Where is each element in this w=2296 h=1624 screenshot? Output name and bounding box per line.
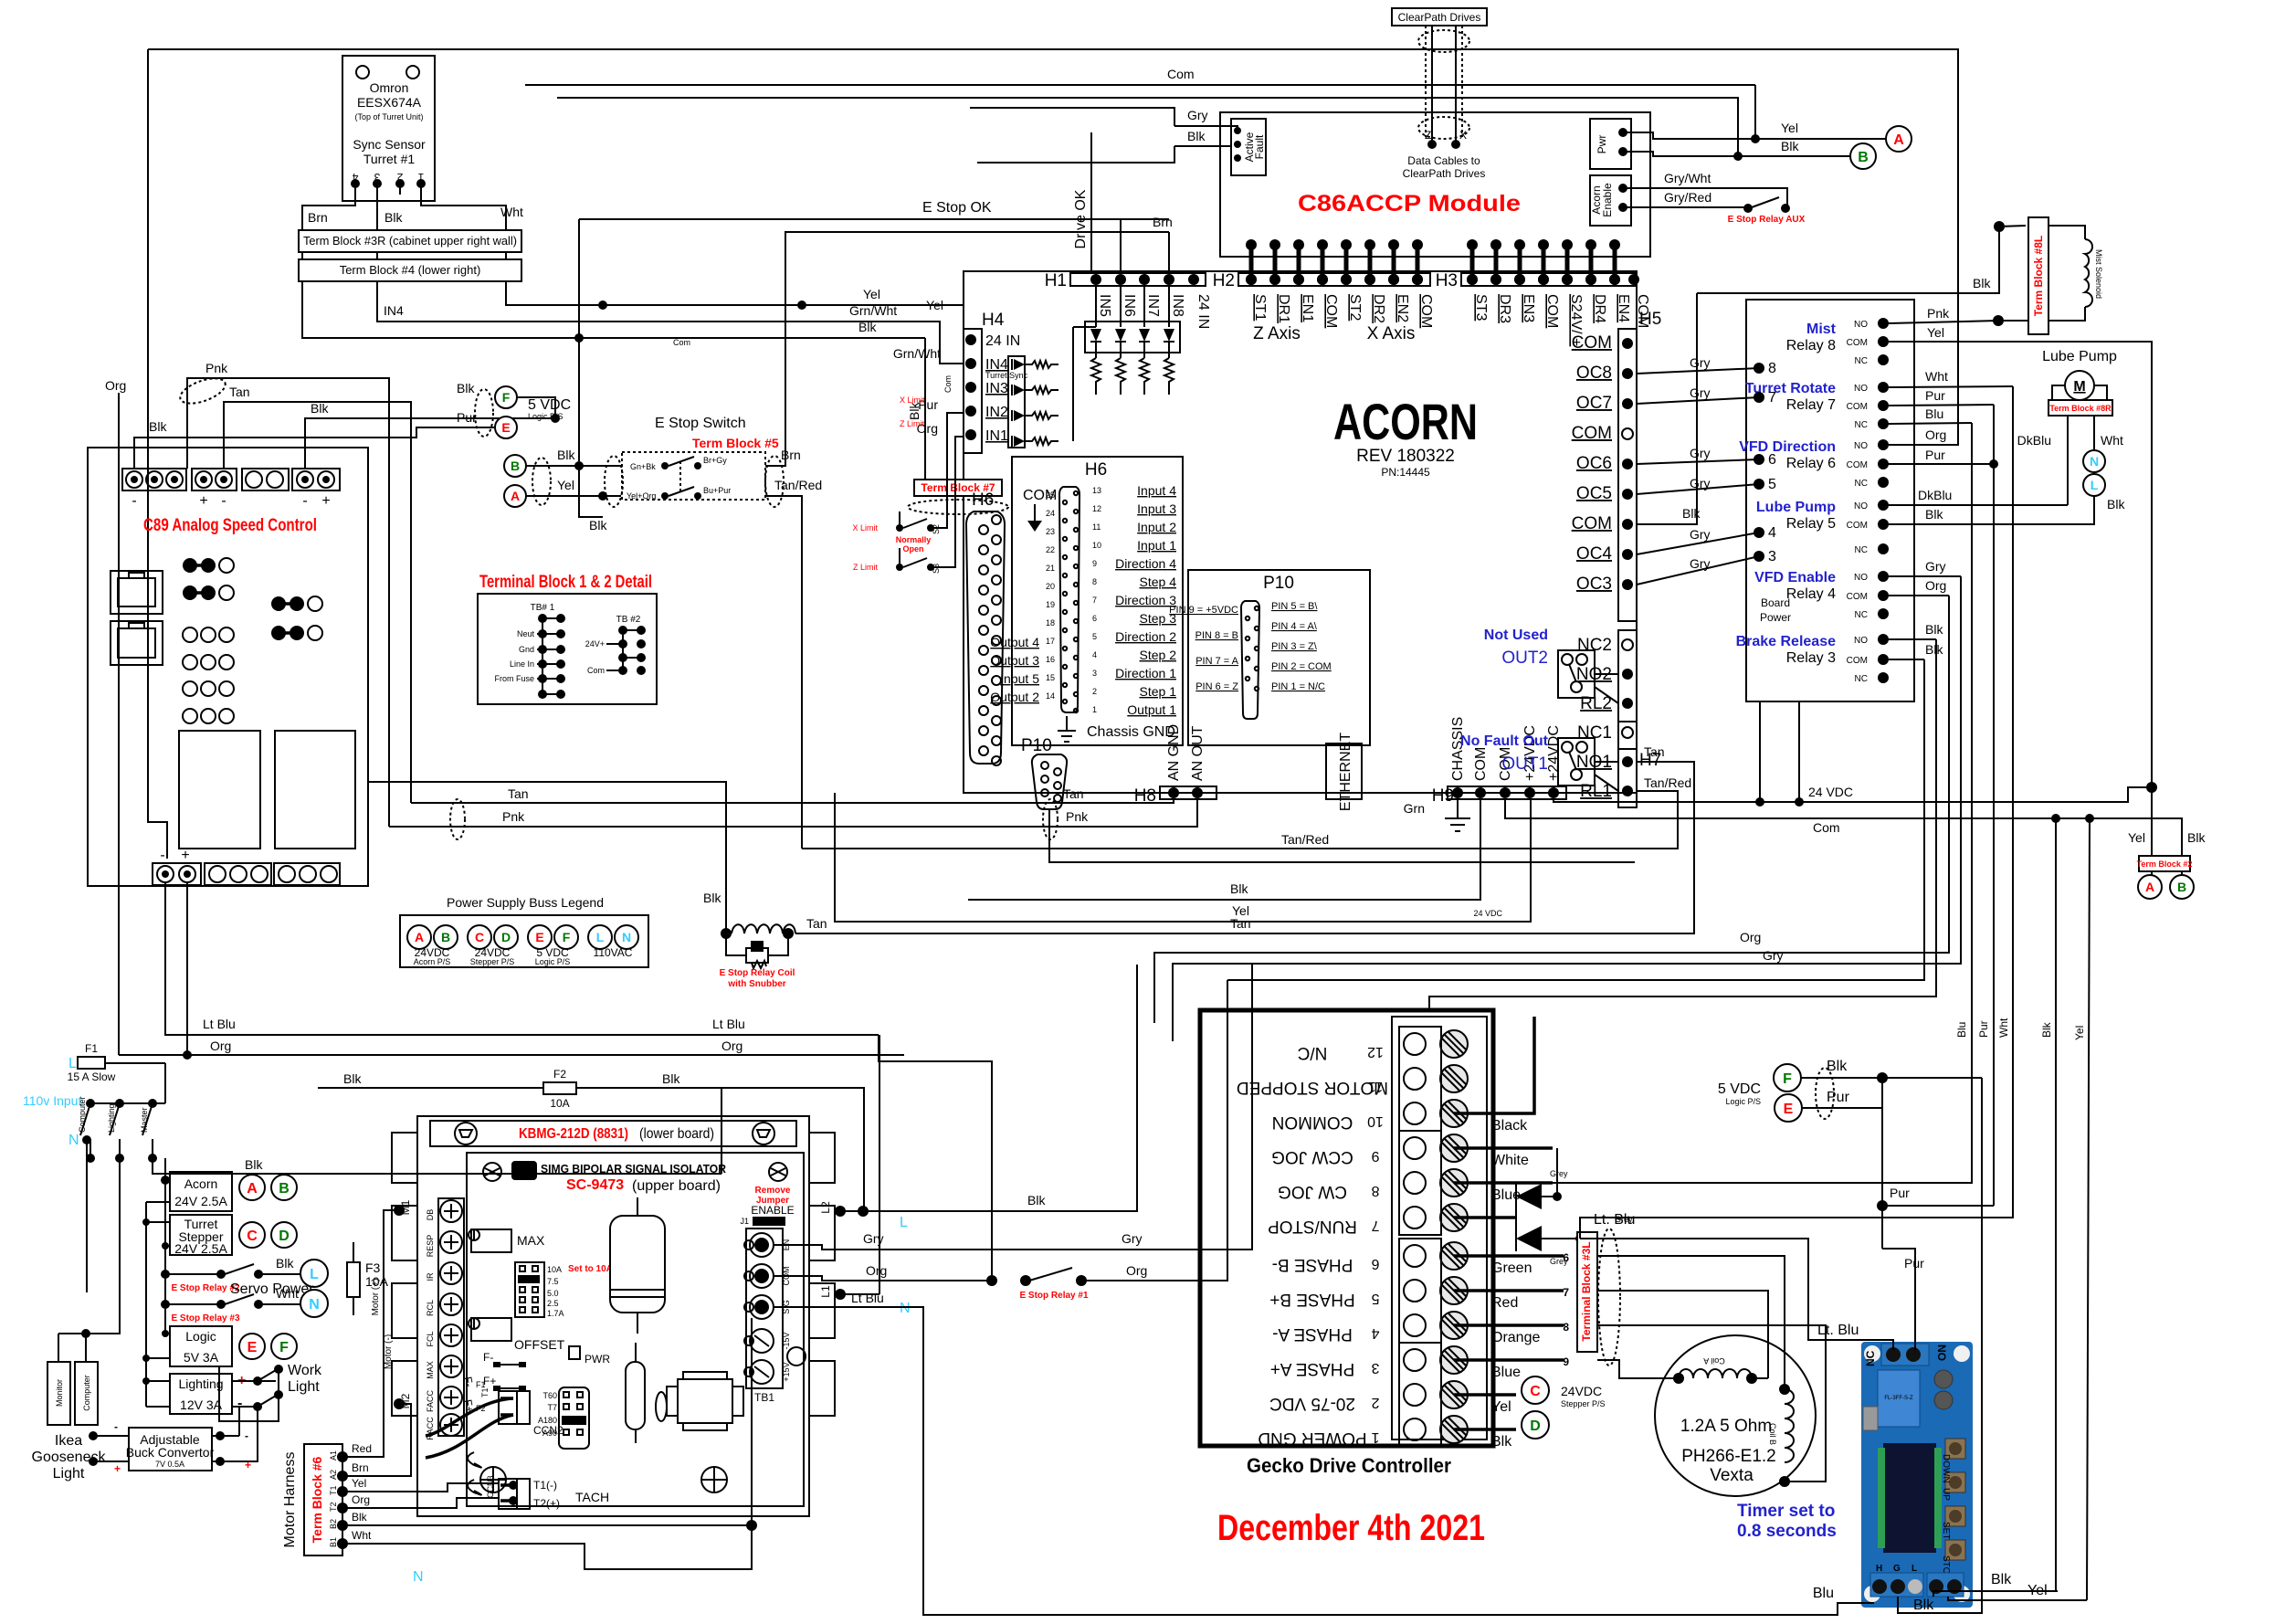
term5 contacts [627, 456, 731, 501]
circle A pwr [1886, 126, 1912, 152]
svg-text:Relay 5: Relay 5 [1786, 516, 1836, 532]
svg-text:Output 3: Output 3 [990, 653, 1039, 668]
svg-text:8: 8 [1092, 577, 1097, 586]
svg-text:Mist: Mist [1806, 322, 1837, 337]
svg-text:Blu: Blu [1813, 1586, 1834, 1601]
KB logo [511, 1161, 537, 1180]
svg-text:H2: H2 [1213, 271, 1235, 290]
svg-text:Open: Open [902, 544, 923, 554]
svg-text:Wht: Wht [276, 1286, 299, 1301]
wire Pnk top [187, 378, 389, 827]
svg-text:E: E [501, 420, 510, 435]
buck converter box [129, 1428, 212, 1471]
coil B vertical [1768, 1384, 1794, 1487]
wire relay4 NO Gry [1889, 575, 1961, 577]
motor+ wire [384, 1209, 399, 1211]
E stop relay 2 servo power [161, 1256, 328, 1297]
svg-text:H3: H3 [1436, 271, 1458, 290]
module bottom pins to H2 [1251, 245, 1615, 279]
svg-text:1.7A: 1.7A [547, 1309, 564, 1318]
svg-text:Yel: Yel [863, 287, 880, 301]
wires OC->relay inputs [1637, 368, 1759, 374]
svg-text:7: 7 [1768, 390, 1776, 406]
svg-text:+: + [114, 1462, 121, 1475]
svg-text:Pwr: Pwr [1596, 135, 1608, 154]
C86ACCP module box [1220, 112, 1650, 257]
Lighting PSU box [170, 1374, 232, 1414]
svg-text:Pnk: Pnk [1066, 809, 1089, 824]
svg-text:Term Block #4 (lower right): Term Block #4 (lower right) [340, 263, 481, 277]
svg-text:L1: L1 [819, 1285, 832, 1298]
svg-text:B1: B1 [329, 1537, 338, 1547]
svg-text:N: N [900, 1301, 911, 1316]
svg-text:Pnk: Pnk [205, 361, 228, 375]
svg-text:Blk: Blk [703, 891, 721, 905]
Term Block #8R [2048, 400, 2112, 416]
caps [1934, 1370, 1953, 1388]
svg-text:PWR: PWR [585, 1353, 610, 1366]
Acorn PSU box [170, 1172, 232, 1211]
svg-text:Blk: Blk [858, 320, 877, 334]
svg-text:1: 1 [1092, 705, 1097, 714]
svg-text:DR3: DR3 [1497, 294, 1512, 323]
svg-text:Output 1: Output 1 [1127, 702, 1176, 717]
svg-text:P10: P10 [1021, 736, 1052, 755]
svg-text:7: 7 [1371, 1218, 1379, 1233]
svg-text:N/C: N/C [1298, 1043, 1328, 1062]
Turret stepper PSU box [170, 1215, 232, 1255]
svg-text:Gry: Gry [1763, 948, 1784, 963]
svg-text:2: 2 [1092, 687, 1097, 696]
wire Gry/Red + E Stop Relay AUX switch [1623, 206, 1744, 208]
svg-text:F: F [563, 930, 571, 944]
relay 5 Lube Pump [1756, 500, 1889, 555]
svg-text:Omron: Omron [370, 80, 409, 95]
svg-text:Blk: Blk [352, 1511, 368, 1524]
Term Block #2 box [2139, 856, 2190, 871]
svg-text:Board: Board [1761, 596, 1790, 609]
svg-text:Motor (-): Motor (-) [384, 1334, 394, 1369]
svg-text:Blk: Blk [2040, 1021, 2053, 1038]
X/Z limit switches [852, 413, 964, 574]
svg-text:COM: COM [1847, 460, 1868, 470]
C89 open pads rows [183, 627, 234, 723]
svg-text:COMMON: COMMON [1272, 1113, 1353, 1132]
grey dashed cable [1598, 1229, 1620, 1366]
E stop relay coil with snubber [720, 924, 795, 989]
svg-text:4: 4 [1092, 650, 1097, 659]
svg-text:Gecko Drive Controller: Gecko Drive Controller [1247, 1454, 1451, 1477]
diodes at run/stop [1516, 1148, 1635, 1266]
svg-text:UP: UP [1941, 1488, 1951, 1501]
lube pump motor [2065, 371, 2094, 400]
svg-text:Blk: Blk [245, 1157, 263, 1172]
svg-text:TB# 1: TB# 1 [531, 603, 555, 613]
usb [1863, 1407, 1878, 1430]
svg-text:24 VDC: 24 VDC [1473, 909, 1502, 918]
svg-text:Turret Sync: Turret Sync [985, 371, 1028, 380]
wire Gry TB1 [774, 965, 1252, 1250]
svg-text:Org: Org [866, 1263, 887, 1278]
svg-text:D: D [501, 930, 511, 944]
svg-text:24V+: 24V+ [585, 639, 605, 649]
svg-text:Direction 1: Direction 1 [1115, 666, 1176, 680]
svg-text:PIN 3 = Z\: PIN 3 = Z\ [1271, 641, 1318, 652]
svg-text:P10: P10 [1263, 574, 1294, 593]
svg-text:Input 4: Input 4 [1137, 483, 1176, 498]
relay 7 Turret Rotate [1745, 381, 1889, 430]
svg-text:FL-3FF-S-Z: FL-3FF-S-Z [1884, 1396, 1913, 1401]
svg-text:Lt Blu: Lt Blu [851, 1291, 884, 1305]
svg-text:Stepper P/S: Stepper P/S [1561, 1399, 1606, 1408]
svg-text:G: G [1893, 1564, 1901, 1574]
left bus down to buck [145, 1202, 147, 1407]
left terminal screws column [426, 1198, 464, 1440]
svg-text:Remove: Remove [755, 1186, 791, 1196]
svg-text:Red: Red [1491, 1295, 1518, 1311]
svg-text:13: 13 [1092, 486, 1101, 495]
wire L2 Blk run [840, 965, 1137, 1211]
svg-text:B: B [279, 1181, 290, 1197]
svg-text:Wht: Wht [1997, 1018, 2010, 1038]
svg-text:15 A Slow: 15 A Slow [68, 1070, 116, 1083]
motor phase wires from TB3L [1597, 1256, 1785, 1389]
svg-text:No Fault Out: No Fault Out [1460, 733, 1549, 749]
svg-text:N: N [2090, 454, 2099, 469]
svg-text:Yel: Yel [1491, 1399, 1511, 1415]
svg-text:DkBlu: DkBlu [2017, 433, 2051, 448]
wire relay8 COM Yel [1889, 342, 2152, 856]
svg-text:MOTOR STOPPED: MOTOR STOPPED [1237, 1078, 1388, 1097]
circle B pwr [1850, 143, 1876, 169]
svg-text:Logic P/S: Logic P/S [1725, 1097, 1761, 1106]
wire Blk to B [1623, 152, 1850, 156]
wires from C89 bottom [164, 882, 166, 1005]
svg-text:Wht: Wht [500, 205, 523, 219]
svg-text:L2: L2 [819, 1201, 832, 1214]
svg-text:DkBlu: DkBlu [1918, 488, 1952, 502]
svg-text:10A: 10A [547, 1265, 562, 1274]
gecko terminal panel [1392, 1017, 1487, 1439]
svg-text:Normally: Normally [896, 535, 932, 544]
svg-text:Blk: Blk [1187, 129, 1206, 143]
wire Lt Blu bus [165, 882, 879, 1035]
svg-text:Brake Release: Brake Release [1736, 634, 1837, 649]
svg-text:Pur: Pur [1977, 1020, 1990, 1038]
svg-text:+15V: +15V [782, 1362, 791, 1381]
svg-text:Gry: Gry [1122, 1231, 1143, 1246]
svg-text:N: N [68, 1133, 79, 1148]
circles A B acorn psu [239, 1175, 265, 1200]
svg-text:X: X [1459, 129, 1467, 142]
svg-text:Blk: Blk [457, 381, 475, 395]
svg-text:FACC: FACC [426, 1390, 435, 1413]
svg-text:COM: COM [1544, 294, 1560, 328]
left bus verticals [164, 1158, 166, 1334]
svg-text:Pur: Pur [1904, 1256, 1924, 1271]
top terminal [1881, 1344, 1929, 1366]
C89 top terminal strips [122, 469, 340, 509]
H4 diode resistor rows [1008, 356, 1058, 448]
mist solenoid coil [2048, 226, 2103, 321]
svg-text:Bu+Pur: Bu+Pur [703, 486, 731, 495]
svg-text:Grn/Wht: Grn/Wht [893, 346, 941, 361]
gecko rows: labels rotated 180, number, hole, screw [1237, 1030, 1468, 1448]
svg-text:Blk: Blk [662, 1071, 680, 1086]
svg-text:OUT1: OUT1 [1501, 754, 1548, 774]
svg-text:Yel: Yel [926, 298, 943, 312]
circle B [504, 455, 526, 477]
wire com loop [1429, 639, 1936, 1010]
svg-text:3: 3 [374, 171, 380, 184]
wire Gry loop [1173, 576, 1961, 1041]
wire relay7 COM Pur [1889, 405, 1994, 406]
wire Grn/Wht IN4 run [377, 281, 964, 364]
circle A tb2 [2138, 875, 2162, 899]
svg-text:Blk: Blk [1925, 507, 1943, 522]
data cable dashed [1418, 26, 1469, 149]
svg-text:Z: Z [1425, 129, 1431, 142]
svg-text:ENABLE: ENABLE [751, 1204, 794, 1217]
svg-text:F: F [279, 1340, 289, 1355]
relay 3 Brake Release [1736, 634, 1889, 684]
svg-text:E Stop Switch: E Stop Switch [655, 416, 746, 431]
svg-text:10: 10 [1367, 1113, 1384, 1129]
circle A [504, 485, 526, 507]
svg-text:Blk: Blk [1027, 1193, 1046, 1207]
wire relay3 NO Blk [1889, 638, 1936, 640]
svg-text:NO: NO [1854, 320, 1868, 330]
wire relay3 COM Blk [1889, 659, 1924, 660]
svg-text:7: 7 [1563, 1286, 1569, 1299]
OFFSET pot [471, 1318, 511, 1341]
svg-text:NC: NC [1855, 420, 1868, 430]
svg-text:9: 9 [1092, 559, 1097, 568]
svg-text:MAX: MAX [517, 1233, 545, 1248]
svg-text:Com: Com [587, 666, 605, 675]
svg-text:Gry: Gry [1690, 385, 1711, 400]
svg-text:23: 23 [1046, 527, 1055, 536]
svg-text:14: 14 [1046, 691, 1055, 701]
wire Yel run to ACORN H4 [506, 281, 964, 305]
ETHERNET box [1326, 743, 1362, 799]
svg-text:Blue: Blue [1491, 1365, 1521, 1380]
svg-text:Pur: Pur [1925, 388, 1945, 403]
A180 jumper block [538, 1387, 589, 1449]
wire Pur to E circle [134, 427, 495, 469]
svg-text:4: 4 [352, 171, 358, 184]
outer frame wire top [148, 49, 1958, 445]
svg-text:12: 12 [1092, 504, 1101, 513]
wire Tan top [224, 402, 411, 803]
svg-text:From Fuse: From Fuse [494, 674, 534, 683]
buck wires [89, 1431, 98, 1440]
circles E F [239, 1334, 265, 1359]
svg-text:+24VDC: +24VDC [1546, 725, 1562, 781]
svg-text:B: B [1858, 150, 1869, 165]
svg-text:T7: T7 [547, 1403, 557, 1412]
circles C D [239, 1222, 265, 1248]
svg-text:Lighting: Lighting [107, 1103, 116, 1133]
wire Gry/Wht [1623, 188, 1787, 206]
svg-text:8: 8 [1768, 361, 1776, 376]
svg-text:Pnk: Pnk [1927, 306, 1950, 321]
svg-text:NO: NO [1935, 1345, 1948, 1361]
ACORN board outline [964, 271, 1637, 793]
svg-text:7.5: 7.5 [547, 1277, 559, 1286]
svg-text:Org: Org [210, 1039, 231, 1053]
svg-text:TACH: TACH [575, 1490, 609, 1504]
svg-text:20-75 VDC: 20-75 VDC [1269, 1394, 1355, 1413]
relay 8 Mist [1786, 318, 1889, 366]
svg-text:Blk: Blk [384, 210, 403, 225]
svg-text:Org: Org [1126, 1263, 1147, 1278]
svg-text:8: 8 [1371, 1183, 1379, 1198]
wire relay4 COM Org [1889, 595, 1949, 596]
svg-text:COM: COM [1572, 333, 1612, 353]
svg-text:6: 6 [1371, 1256, 1379, 1271]
svg-text:PIN 2 = COM: PIN 2 = COM [1271, 661, 1332, 672]
wires to A/B [2151, 871, 2153, 875]
svg-text:DR1: DR1 [1276, 294, 1291, 323]
svg-text:PIN 6 = Z: PIN 6 = Z [1195, 681, 1238, 692]
svg-text:L: L [1912, 1564, 1917, 1574]
svg-text:NC: NC [1855, 545, 1868, 555]
MAX pot [471, 1229, 511, 1252]
H1 wires up [1120, 219, 1122, 273]
wire 24VDC bus [1553, 787, 2152, 802]
svg-text:H6: H6 [1085, 460, 1107, 480]
svg-text:VFD Direction: VFD Direction [1739, 439, 1836, 455]
svg-text:Enable: Enable [1601, 183, 1614, 217]
svg-text:Line In: Line In [510, 659, 534, 669]
svg-text:20: 20 [1046, 582, 1055, 591]
fuse F2 [543, 1082, 576, 1094]
svg-text:Power Supply Buss Legend: Power Supply Buss Legend [447, 895, 604, 910]
svg-text:DR4: DR4 [1592, 294, 1607, 323]
circle L lube [2083, 474, 2105, 496]
svg-text:Step 2: Step 2 [1140, 648, 1177, 662]
svg-text:4: 4 [1768, 525, 1776, 541]
wire 24vdc loop [1227, 659, 1924, 980]
svg-text:7V 0.5A: 7V 0.5A [155, 1460, 184, 1469]
svg-text:December 4th 2021: December 4th 2021 [1217, 1508, 1485, 1548]
svg-text:COM: COM [1847, 592, 1868, 602]
wire Blk below [579, 466, 603, 517]
svg-text:T60: T60 [542, 1391, 557, 1400]
svg-text:DR2: DR2 [1371, 294, 1386, 323]
svg-text:Tan: Tan [1063, 786, 1084, 801]
P10 detail box [1188, 570, 1370, 745]
svg-text:B2: B2 [329, 1519, 338, 1529]
svg-text:7: 7 [1092, 596, 1097, 605]
svg-text:C89 Analog Speed Control: C89 Analog Speed Control [143, 516, 317, 535]
svg-text:Brn: Brn [1153, 215, 1173, 229]
Terminal Block #3L [1577, 1232, 1597, 1352]
svg-text:-15V: -15V [782, 1332, 791, 1349]
svg-text:Tan/Red: Tan/Red [1644, 775, 1691, 790]
svg-text:6: 6 [1092, 614, 1097, 623]
svg-text:Blk: Blk [343, 1071, 362, 1086]
svg-text:OFFSET: OFFSET [514, 1337, 565, 1352]
svg-text:PHASE B+: PHASE B+ [1269, 1290, 1354, 1309]
svg-text:Green: Green [1491, 1260, 1532, 1276]
svg-text:Yel: Yel [1927, 325, 1944, 340]
F3 fuse [347, 1262, 360, 1297]
svg-text:Gnd: Gnd [519, 645, 534, 654]
dashed ellipse at B/A [532, 458, 551, 505]
Acorn Enable connector [1590, 175, 1631, 226]
svg-text:-: - [160, 848, 164, 863]
svg-text:Blu: Blu [1955, 1022, 1968, 1038]
wire Wht right loop [1580, 386, 2013, 1239]
svg-text:AN GND: AN GND [1166, 724, 1182, 781]
svg-text:Lube Pump: Lube Pump [2042, 349, 2117, 364]
coil A horizontal [1673, 1356, 1768, 1384]
svg-text:ST2: ST2 [1347, 294, 1363, 321]
svg-text:C: C [475, 930, 484, 944]
svg-text:NC: NC [1855, 356, 1868, 366]
svg-text:Blk: Blk [1925, 622, 1943, 637]
svg-text:+: + [199, 493, 207, 509]
svg-text:5 VDC: 5 VDC [528, 397, 571, 413]
svg-text:COM: COM [1847, 402, 1868, 412]
svg-text:Term Block #5: Term Block #5 [692, 436, 779, 450]
svg-text:EN3: EN3 [1521, 294, 1536, 322]
svg-text:Pur: Pur [1890, 1186, 1910, 1200]
wire left Org drop [118, 393, 120, 1055]
svg-text:Br+Gy: Br+Gy [703, 456, 727, 465]
upper board box [467, 1153, 804, 1506]
TB1 terminal right [744, 1229, 791, 1404]
svg-text:D: D [1530, 1418, 1541, 1434]
svg-text:IN4: IN4 [384, 303, 404, 318]
svg-text:Timer set to: Timer set to [1737, 1502, 1835, 1521]
svg-text:H9: H9 [1432, 786, 1454, 806]
svg-text:Blk: Blk [2187, 830, 2206, 845]
svg-text:KB: KB [515, 1164, 533, 1178]
svg-text:T1: T1 [329, 1485, 338, 1495]
svg-text:Yel: Yel [2027, 1583, 2048, 1598]
wire Tan/Red from term5 [765, 496, 802, 849]
svg-text:C: C [247, 1229, 258, 1244]
H6 chassis gnd [1058, 716, 1076, 742]
wire relay7 NO Wht [1889, 386, 2013, 387]
wire gecko 1 GND Blk to D [1454, 1428, 1516, 1431]
wire Pnk into term8L [1998, 320, 2028, 322]
svg-text:T1: T1 [480, 1387, 490, 1397]
svg-text:1: 1 [1371, 1429, 1379, 1445]
svg-text:11: 11 [1092, 522, 1101, 532]
wire E Pur [1802, 1107, 1882, 1109]
svg-text:Tan: Tan [1644, 744, 1665, 759]
svg-text:22: 22 [1046, 545, 1055, 554]
svg-text:(lower board): (lower board) [639, 1126, 714, 1142]
svg-text:24 IN: 24 IN [1195, 294, 1211, 329]
svg-text:24 IN: 24 IN [985, 333, 1020, 349]
wire gecko 3 PHASE A+ Blue [1454, 1358, 1564, 1362]
svg-text:PHASE A+: PHASE A+ [1270, 1359, 1354, 1378]
svg-text:F3: F3 [365, 1260, 381, 1275]
Term Block #8L box [2028, 217, 2048, 334]
TB detail box [478, 594, 657, 704]
svg-text:J1: J1 [740, 1217, 749, 1226]
svg-text:Gry: Gry [1690, 446, 1711, 460]
svg-text:Blk: Blk [1973, 276, 1991, 290]
svg-text:9: 9 [1563, 1355, 1569, 1368]
svg-text:POWER GND: POWER GND [1258, 1429, 1366, 1448]
wire relay5 NO DkBlu [1889, 504, 2068, 506]
